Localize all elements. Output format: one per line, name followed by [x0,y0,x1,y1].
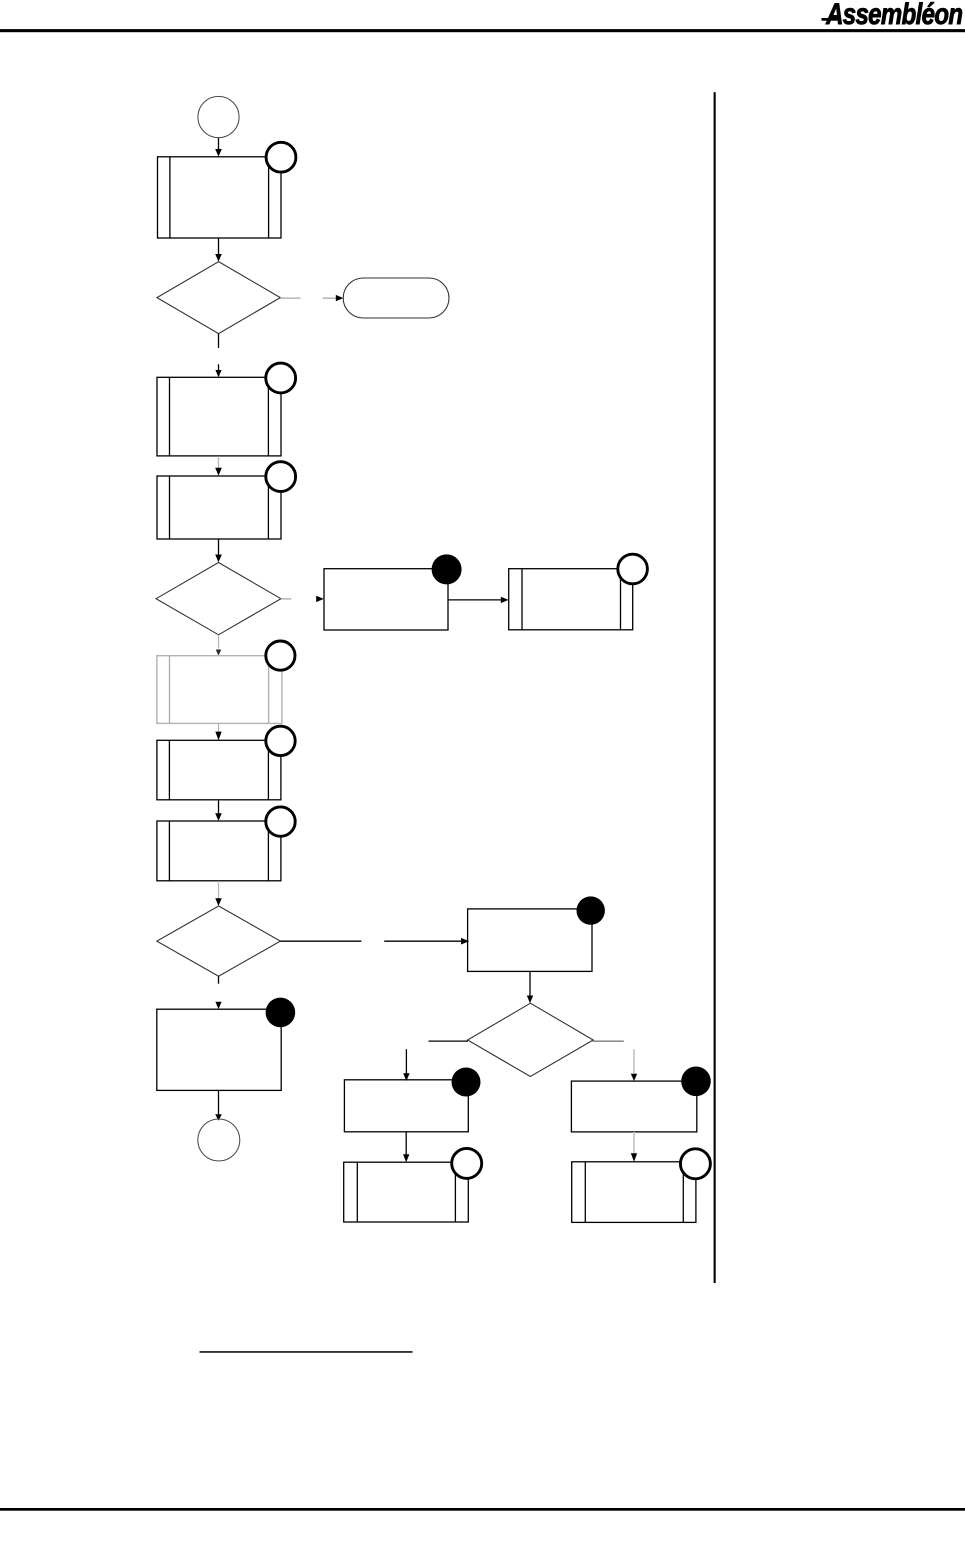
marker circle cE (filled) [681,1067,711,1097]
marker circle c6 (filled) [266,998,296,1028]
wire P4 to P5 [215,800,222,821]
wire D4 right branch [593,1041,638,1081]
action box RC [468,909,592,972]
process box P4 [157,740,281,800]
marker circle cG [266,641,295,670]
wire RA to PB [448,597,509,603]
decision diamond D3 [157,906,281,976]
marker circle cB [618,554,648,584]
marker circle cD (filled) [452,1068,481,1097]
wire D4 left branch [403,1041,468,1081]
process box P3 [157,476,281,539]
terminator (rounded box) [343,278,449,318]
wire R6 to end [215,1091,222,1121]
process box P1 [158,157,282,238]
wire D2 to RA [281,596,324,602]
marker circle cA (filled) [432,554,462,584]
wire D2 to PGray [216,635,222,656]
header rule [0,29,965,32]
process box PB [509,569,633,630]
start circle [198,96,239,137]
process box P5 [157,821,281,881]
marker circle c2 [266,363,296,393]
marker circle cG2 [680,1149,710,1179]
marker circle cC (filled) [577,896,605,924]
logo A-bar [822,18,841,21]
wire D1 to terminator [280,295,343,301]
marker circle c1 [266,142,296,172]
marker circle c3 [266,462,296,492]
decision diamond D1 [157,262,280,334]
action box RD [344,1080,468,1132]
wire D1 to P2 [215,334,221,378]
marker circle c4 [266,726,295,755]
action box RE [571,1081,696,1132]
marker circle c5 [266,807,295,836]
wire RC to D4 [527,972,533,1004]
wire P1 to D1 [215,238,222,262]
wire P2 to P3 [215,456,222,476]
wire D3 to RC [280,938,469,945]
wire D3 to R6 [215,976,221,1009]
end circle [198,1119,240,1161]
footnote separator line [200,1351,413,1353]
wire start to P1 [215,138,222,157]
wire P5 to D3 [215,881,221,906]
decision diamond D4 [468,1003,594,1076]
decision diamond D2 [156,563,281,635]
process box P2 [157,377,281,456]
process box PG [572,1162,696,1223]
wire RE to PG [631,1132,637,1162]
action box R6 [157,1009,281,1090]
wire PGray to P4 [215,724,221,741]
process box PF [344,1162,469,1222]
wire RD to PF [403,1132,409,1162]
marker circle cF [452,1148,482,1178]
process box PGray (light) [157,656,282,724]
logo Assembleon [826,0,962,32]
right border line [714,92,716,1283]
footer rule [0,1508,965,1511]
wire P3 to D2 [215,539,222,562]
action box RA [324,569,448,630]
